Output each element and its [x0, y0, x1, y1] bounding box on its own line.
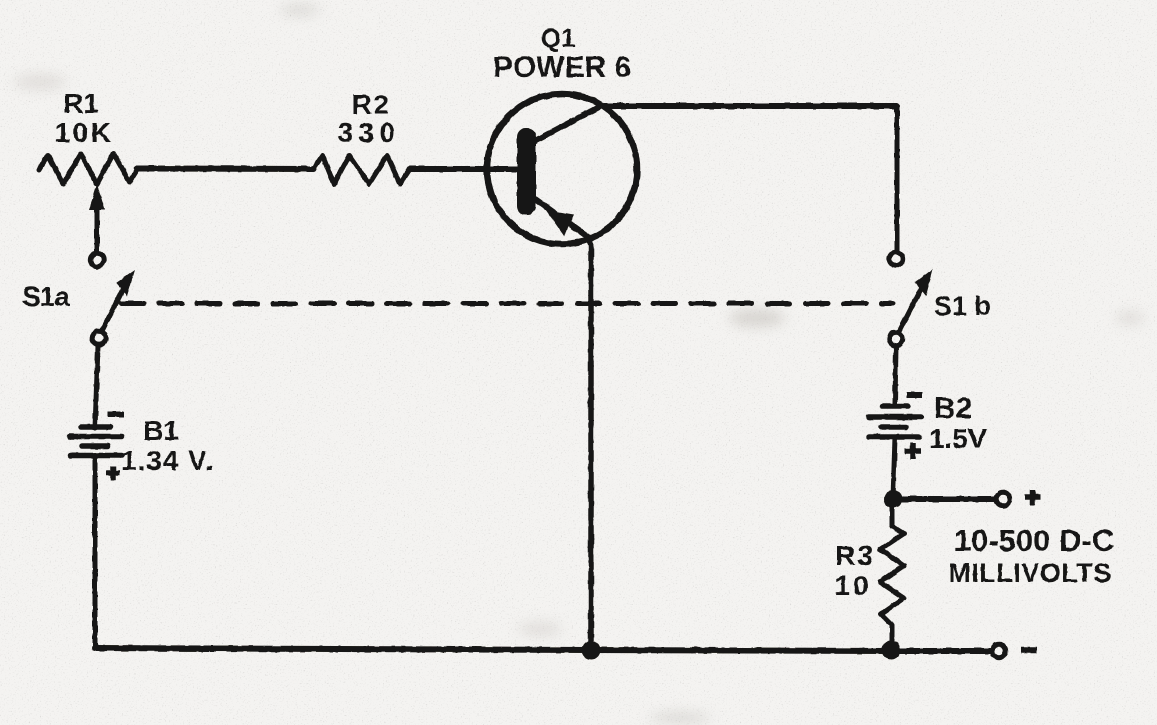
resistor R1 potentiometer zigzag: [39, 154, 138, 185]
B1 plus sign: [106, 466, 120, 480]
svg-text:B1: B1: [143, 415, 179, 446]
bottom wire: [95, 648, 992, 651]
node emitter junction: [582, 641, 601, 660]
switch S1b top terminal: [889, 252, 902, 265]
transistor Q1 circle: [487, 94, 637, 244]
B1 minus sign: [108, 411, 124, 417]
resistor R2 zigzag: [313, 156, 410, 185]
resistor R3 zigzag: [880, 502, 904, 648]
output minus sign: [1021, 647, 1037, 654]
switch S1a arm: [102, 287, 124, 331]
battery B2 plate short: [881, 424, 906, 430]
svg-text:10K: 10K: [55, 117, 114, 148]
svg-text:330: 330: [337, 117, 400, 148]
battery B2 plate short top: [882, 403, 908, 409]
switch S1b arm: [899, 287, 922, 332]
wire S1a to battery B1: [95, 346, 98, 428]
R1 wiper arrow stem: [95, 203, 100, 253]
B2 plus sign: [905, 443, 921, 459]
battery B1 plate short top: [81, 424, 110, 430]
wire left vertical from B1 to bottom: [93, 455, 98, 648]
Q1 emitter arrowhead (PNP): [546, 210, 574, 236]
svg-text:POWER 6: POWER 6: [493, 51, 631, 84]
Q1 base bar: [517, 128, 536, 215]
node junction B2/R3/output: [884, 490, 902, 508]
svg-text:R1: R1: [63, 88, 99, 119]
R1 wiper arrowhead: [89, 184, 105, 210]
output plus sign: [1025, 490, 1040, 505]
svg-text:R3: R3: [835, 540, 875, 571]
switch S1a lower terminal: [92, 331, 105, 344]
battery B1 plate long: [70, 434, 122, 440]
svg-text:S1 b: S1 b: [934, 291, 991, 321]
Q1 collector lead: [531, 106, 601, 143]
wire R2 to Q1 base: [410, 166, 519, 172]
dashed gang line S1a-S1b: [121, 301, 893, 306]
svg-text:10-500 D-C: 10-500 D-C: [954, 523, 1114, 558]
svg-text:Q1: Q1: [541, 23, 576, 53]
switch S1a arrowhead: [116, 270, 135, 296]
battery B1 plate long bottom: [70, 453, 122, 459]
wire B2 to junction: [893, 437, 895, 499]
svg-text:B2: B2: [934, 392, 972, 425]
Q1 emitter lead: [531, 196, 591, 245]
svg-text:10: 10: [834, 570, 871, 601]
battery B2 plate long: [869, 414, 921, 420]
switch S1b lower terminal: [889, 332, 902, 345]
wire right vertical down to S1b: [895, 106, 900, 252]
wire R1 to R2: [137, 166, 314, 173]
switch S1b arrowhead: [915, 269, 933, 296]
battery B1 plate short: [82, 443, 108, 449]
wire junction to + output terminal: [893, 496, 995, 502]
wire emitter down: [588, 244, 594, 648]
R1 wiper terminal circle: [90, 253, 103, 266]
output - terminal circle: [992, 644, 1005, 657]
svg-text:S1a: S1a: [22, 281, 70, 312]
node bottom junction R3: [882, 641, 901, 660]
svg-text:1.34 V.: 1.34 V.: [121, 445, 214, 476]
battery B2 plate long bottom: [869, 434, 919, 440]
wire S1b to battery B2: [895, 346, 896, 403]
output + terminal circle: [996, 492, 1009, 505]
svg-text:MILLIVOLTS: MILLIVOLTS: [948, 558, 1111, 588]
wire Q1 collector to top right: [598, 103, 897, 109]
B2 minus sign: [907, 392, 922, 398]
svg-text:R2: R2: [352, 89, 391, 120]
svg-text:1.5V: 1.5V: [929, 423, 987, 454]
